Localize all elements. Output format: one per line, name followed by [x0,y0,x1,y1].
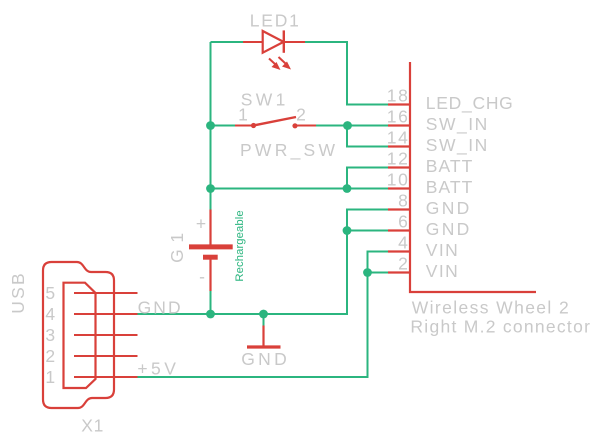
battery G1 bottom lead [209,257,211,291]
svg-text:2: 2 [296,105,306,125]
junction: pin 10 [343,184,352,193]
svg-text:GND: GND [241,349,287,369]
connector body line [410,62,536,292]
junction: pin 2 [363,268,372,277]
junction: pin 6 [343,226,352,235]
svg-text:12: 12 [387,149,408,169]
svg-text:Rechargeable: Rechargeable [234,210,246,281]
USB connector X1 outer shell [43,262,114,408]
SW1 lever [254,117,297,126]
USB pin 1 line [74,376,138,378]
wire: LED anode horizontal [211,41,244,43]
svg-text:BATT: BATT [426,177,473,197]
wire: branch to pin 6 [347,230,388,232]
svg-text:4: 4 [398,233,408,253]
svg-text:PWR_SW: PWR_SW [240,140,335,161]
svg-text:GND: GND [426,198,470,218]
svg-text:GND: GND [138,297,181,317]
LED1 emission arrow 1 [269,59,281,71]
svg-text:+5V: +5V [137,358,176,378]
pin 4 stub [388,250,410,252]
pin 18 stub [388,103,410,105]
svg-text:VIN: VIN [426,261,458,281]
wire: battery plus row to pin 10 [211,188,389,190]
svg-text:10: 10 [387,170,408,190]
svg-text:5: 5 [45,283,55,303]
junction: battery plus [206,184,215,193]
svg-text:1: 1 [45,367,55,387]
svg-text:X1: X1 [81,416,103,436]
SW1 pin2 lead [297,125,317,127]
battery G1 top lead [209,210,211,247]
wire: +5V to VIN pins [138,252,389,378]
battery G1 positive plate [189,244,233,249]
wire: battery minus to GND bus [210,291,212,314]
svg-text:14: 14 [387,128,408,148]
wire: branch to pin 14 [347,126,388,147]
svg-text:LED1: LED1 [250,10,299,30]
USB pin 3 line [74,334,138,336]
LED1 lead left [243,41,262,43]
pin 14 stub [388,145,410,147]
svg-text:Right M.2 connector: Right M.2 connector [410,316,590,336]
SW1 contact 2 [292,123,297,128]
svg-text:Wireless Wheel 2: Wireless Wheel 2 [412,298,569,318]
svg-text:SW_IN: SW_IN [426,114,488,135]
svg-text:2: 2 [45,346,55,366]
svg-text:6: 6 [398,212,408,232]
pin 10 stub [388,187,410,189]
LED1 cathode bar [283,30,285,52]
USB pin 4 line [74,313,138,315]
svg-text:G1: G1 [167,233,187,263]
junction: pin 16 [343,121,352,130]
wire: SW1 to pin 16 [316,125,388,127]
svg-text:1: 1 [238,105,248,125]
svg-text:+: + [196,214,206,234]
wire: branch to pin 2 [368,272,389,274]
wire: junction to SW1 pin1 [211,125,236,127]
svg-text:GND: GND [426,219,470,239]
USB pin 2 line [74,355,138,357]
LED1 lead right [284,41,305,43]
wire: left vertical rail LED to battery [210,42,212,210]
svg-text:VIN: VIN [426,240,458,260]
USB pin 5 line [74,292,138,294]
pin 16 stub [388,124,410,126]
pin 12 stub [388,166,410,168]
GND symbol stem green [263,314,265,326]
svg-text:18: 18 [387,86,408,106]
svg-text:LED_CHG: LED_CHG [426,93,513,114]
USB connector X1 inner shell [64,283,96,388]
LED1 emission arrow 2 [279,57,292,70]
LED1 triangle [263,31,284,53]
junction: GND symbol [259,310,268,319]
junction: SW row left [206,121,215,130]
svg-text:4: 4 [45,304,55,324]
SW1 pin1 lead [235,125,252,127]
svg-text:SW_IN: SW_IN [426,135,488,156]
SW1 contact 1 [251,123,256,128]
wire: LED cathode to pin 18 [305,42,388,105]
wire: GND bus [138,210,389,315]
svg-text:16: 16 [387,107,408,127]
svg-text:BATT: BATT [426,156,473,176]
svg-text:-: - [199,267,205,287]
svg-text:3: 3 [45,325,55,345]
svg-text:USB: USB [8,273,28,314]
GND symbol bar [247,345,281,348]
GND symbol stem red [262,326,264,348]
wire: branch to pin 12 [347,168,388,189]
pin 2 stub [388,271,410,273]
pin 8 stub [388,208,410,210]
battery G1 negative plate [203,255,218,260]
pin 6 stub [388,229,410,231]
svg-text:2: 2 [398,254,408,274]
junction: battery minus GND [206,310,215,319]
svg-text:8: 8 [398,191,408,211]
